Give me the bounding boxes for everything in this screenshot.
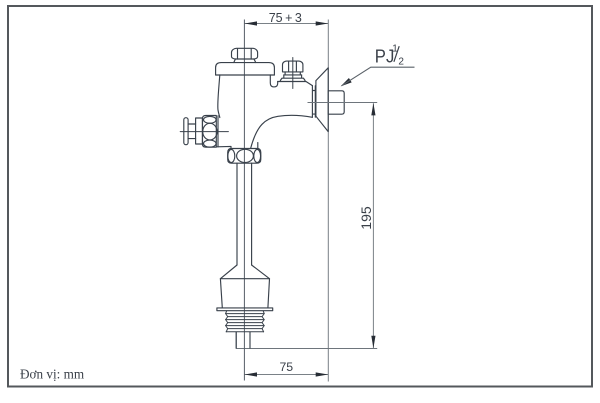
union nut <box>228 149 261 164</box>
down tube <box>237 163 252 265</box>
stop valve hex <box>283 61 303 72</box>
hex nut neck <box>234 59 256 63</box>
extension line: fitting centerline y=102.7 (195 top extension) <box>308 102 378 104</box>
svg-text:Đơn vị: mm: Đơn vị: mm <box>20 367 85 382</box>
dimension line 195 vertical <box>372 103 374 348</box>
svg-text:75 + 3: 75 + 3 <box>269 11 302 25</box>
arrow PJ leader <box>341 78 352 86</box>
extension line: wall face / right extension x=328.3 <box>327 20 329 382</box>
handle stem <box>188 124 196 139</box>
top hex nut <box>232 48 258 59</box>
main vertical centerline <box>243 20 245 381</box>
arrow 195 down <box>371 336 375 348</box>
arm top edge: flange bottom to pipe <box>278 82 313 86</box>
wall flange (escutcheon) <box>316 68 328 132</box>
arrow 195 up <box>371 103 375 115</box>
extension line: bottom y=348 <box>236 332 377 349</box>
body lower-left edge to union <box>217 146 231 148</box>
wall nut PJ1/2 <box>328 91 344 114</box>
threaded section side profile <box>226 311 265 332</box>
handle centerline <box>180 131 228 133</box>
dimension texts <box>269 11 405 374</box>
stop valve flange band <box>280 75 305 82</box>
handle knob disc <box>184 118 188 145</box>
handle bracket <box>196 118 203 144</box>
arrowheads (dimension) <box>245 21 376 376</box>
stop valve neck <box>284 72 302 75</box>
body lower-right boss edge <box>257 143 259 149</box>
handle coupling cylinder <box>202 116 216 148</box>
arm bottom sweep <box>251 115 313 148</box>
body left edge <box>218 75 220 118</box>
label PJ 1/2 slash <box>394 46 399 62</box>
stop valve centerline <box>292 58 294 89</box>
arrow bottom-right 75 <box>316 372 328 376</box>
arrow bottom-left 75 <box>245 372 257 376</box>
dimension line 75±3 top <box>244 23 328 25</box>
U-notch between cap and stop flange <box>270 75 277 87</box>
arrow top-left <box>245 21 257 25</box>
svg-text:195: 195 <box>358 206 374 230</box>
svg-text:2: 2 <box>398 57 404 68</box>
outlet stub <box>236 332 250 348</box>
arrow top-right <box>316 21 328 25</box>
spreader cone top flare <box>220 265 269 279</box>
spreader cone body <box>220 279 269 308</box>
dimension line 75 bottom <box>244 374 328 376</box>
bonnet cap <box>216 63 275 75</box>
thread ridges <box>226 314 265 332</box>
svg-text:75: 75 <box>279 360 293 374</box>
leader line PJ1/2 <box>342 67 415 86</box>
inlet pipe stub verticals <box>312 86 316 118</box>
spreader base flange <box>217 308 273 311</box>
